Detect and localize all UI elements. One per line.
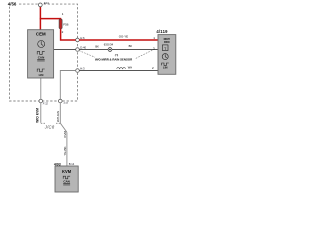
svg-text:E24: E24 (44, 1, 49, 5)
connector F:32 on bottom boundary (39, 99, 43, 103)
svg-text:CAN: CAN (38, 55, 45, 59)
wire: red branch to fuse (40, 18, 61, 20)
wire: red fuse top stub (60, 18, 62, 19)
svg-text:D:40: D:40 (80, 45, 86, 49)
in-line connector 63G/34 (108, 48, 112, 52)
splice J/C8 (dashed) (41, 122, 45, 124)
connector H:6 on boundary (76, 38, 80, 42)
wire: red OG-YE to module 4/119 pin 1 (79, 39, 158, 41)
svg-text:4/56: 4/56 (8, 1, 17, 6)
wire: vertical to KVM 4/93 (66, 132, 68, 166)
wire: WH-GN below C:8 (59, 103, 61, 123)
module boundary 4/56 (dashed box) (10, 4, 78, 101)
CEM CAN icon (37, 52, 45, 55)
svg-text:RRX: RRX (164, 40, 170, 44)
svg-text:C:8: C:8 (64, 101, 69, 105)
4/119 clock icon (162, 54, 168, 60)
svg-text:63G/34: 63G/34 (104, 42, 114, 46)
connector H:3 on boundary (76, 69, 80, 73)
wire: CEM LIN down to F:32 (40, 78, 42, 99)
svg-text:KVM: KVM (63, 130, 67, 137)
svg-text:WH: WH (128, 66, 132, 70)
svg-text:F:32: F:32 (43, 102, 49, 106)
fuse F56 (59, 19, 62, 28)
svg-text:LIN: LIN (163, 66, 168, 70)
4/119 LIN icon (162, 63, 169, 65)
svg-text:B:14: B:14 (69, 162, 75, 166)
svg-text:W/O MIRR & RAIN SENSOR: W/O MIRR & RAIN SENSOR (95, 57, 132, 61)
connector D:40 on boundary (76, 48, 80, 52)
wire: red feed from E24 down to CEM (39, 5, 41, 30)
wire: BK to in-line connector 63G/34 and module 4/119 pin 3 (79, 49, 158, 51)
4/119 antenna T icon (162, 45, 168, 51)
wire: LIN WH from H:3 to module 4/119 pin 2 (79, 70, 158, 72)
CEM LIN icon (37, 69, 45, 72)
svg-text:OG-YE: OG-YE (119, 34, 128, 38)
svg-text:BK: BK (129, 44, 133, 48)
CEM clock icon (38, 41, 45, 48)
module RKP/RRX 4/119 (158, 35, 176, 75)
module CEM (inside 4/56) (28, 30, 54, 78)
wire: diagonal jog to KVM (60, 123, 67, 132)
svg-text:CEM: CEM (36, 31, 46, 36)
svg-text:KVM: KVM (62, 169, 72, 174)
module KVM 4/93 (55, 166, 78, 192)
wire: BK ground wire from CEM to D:40 (54, 49, 76, 51)
svg-text:J/C8: J/C8 (44, 125, 55, 130)
svg-text:LIN: LIN (39, 73, 44, 77)
svg-text:4/119: 4/119 (156, 29, 168, 34)
wire: W/O KVM stub below F:32 (40, 103, 42, 123)
svg-text:WH-GN: WH-GN (56, 111, 60, 122)
svg-text:F56: F56 (63, 23, 69, 27)
twisted pair squiggle (117, 67, 126, 68)
wire: red from fuse down and right to H:6 (61, 29, 76, 40)
svg-text:W/O KVM: W/O KVM (35, 108, 39, 123)
svg-text:YE-BK: YE-BK (63, 146, 67, 155)
KVM CAN icon (63, 176, 70, 179)
svg-text:H:3: H:3 (80, 67, 85, 71)
note leader to D:40 (79, 51, 95, 58)
svg-text:BK: BK (95, 44, 99, 48)
connector C:8 on bottom boundary (59, 99, 63, 103)
connector E24 (38, 3, 42, 7)
wire: LIN inside 4/56 from H:3 down to C:8 (60, 71, 76, 100)
svg-text:CAN: CAN (63, 179, 70, 183)
